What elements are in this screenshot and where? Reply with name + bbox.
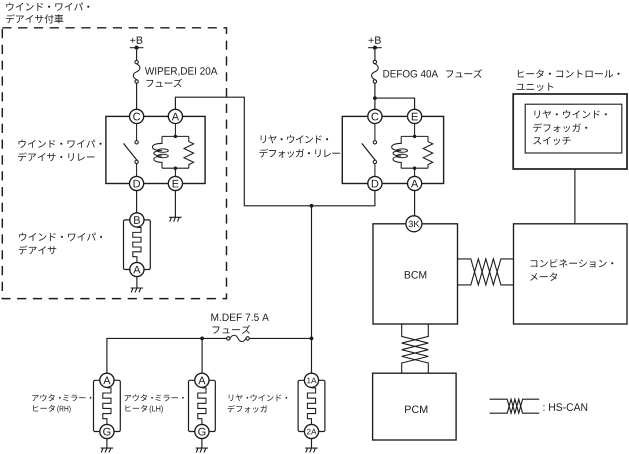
box: コンビネーション・メータ bbox=[514, 224, 628, 324]
node: coil top junction (left relay) bbox=[174, 135, 177, 138]
node: bus junction at LH mirror heater bbox=[200, 337, 204, 341]
wire+ground (rear defogger) bbox=[311, 439, 313, 448]
node: coil bottom junction (right relay) bbox=[413, 167, 416, 170]
wire: pin A up and over to rear defogger relay pin D bbox=[175, 97, 375, 206]
wire: right relay pin A to BCM pin 3K bbox=[414, 191, 416, 216]
legend: HS-CAN twisted pair symbol bbox=[490, 399, 540, 413]
fuse WIPER,DEI 20A bbox=[133, 60, 140, 83]
pin A (right relay) bbox=[408, 176, 422, 190]
label: ウインド・ワイパ・デアイサ・リレー bbox=[18, 140, 102, 162]
label: コンビネーション・メータ bbox=[530, 259, 613, 281]
label: DEFOG 40A フューズ bbox=[383, 69, 482, 78]
relay coil (left) bbox=[152, 124, 188, 177]
box: BCM bbox=[373, 224, 458, 324]
wire: +B to WIPER fuse bbox=[136, 50, 138, 61]
heater element: アウタ・ミラー・ヒータ (RH) (pins A, G) bbox=[94, 373, 121, 438]
label: ヒータ・コントロール・ユニット bbox=[516, 69, 619, 91]
label: WIPER,DEI 20A フューズ bbox=[145, 67, 217, 87]
wire+ground (RH mirror heater) bbox=[106, 439, 108, 448]
fuse M.DEF 7.5 A bbox=[227, 335, 250, 341]
heater element: ウインド・ワイパ・デアイサ (pins B, A) bbox=[124, 213, 151, 277]
node: coil top junction (right relay) bbox=[413, 135, 416, 138]
node: coil bottom junction (left relay) bbox=[174, 167, 177, 170]
twisted pair: BCM to PCM (HS-CAN) bbox=[402, 324, 429, 373]
label: ウインド・ワイパ・デアイサ付車 (header) bbox=[6, 2, 90, 23]
wire: pin D to de-icer element pin B bbox=[136, 191, 138, 213]
label: リヤ・ウインド・デフォッガ bbox=[228, 394, 288, 412]
box: リヤ・ウインド・デフォッガ・スイッチ bbox=[525, 104, 622, 153]
relay box: リヤ・ウインド・デフォッガ・リレー bbox=[342, 116, 443, 183]
box: PCM bbox=[373, 373, 457, 440]
label: アウタ・ミラー・ヒータ (RH) bbox=[32, 394, 91, 413]
power feed +B (left) bbox=[130, 37, 144, 50]
ground (left relay pin E) bbox=[169, 217, 181, 221]
wire: heater control unit to combination meter bbox=[574, 169, 576, 224]
dashed option enclosure box bbox=[2, 28, 226, 299]
node: fuse branch junction bbox=[373, 96, 377, 100]
box: heater control unit bbox=[513, 94, 627, 169]
label: リヤ・ウインド・デフォッガ・スイッチ bbox=[533, 110, 607, 145]
fuse DEFOG 40A bbox=[372, 60, 379, 83]
pin 3K bbox=[406, 216, 422, 232]
label: アウタ・ミラー・ヒータ (LH) bbox=[124, 394, 183, 413]
pin A (left relay) bbox=[168, 109, 182, 123]
wire: fuse to relay pin C bbox=[136, 83, 138, 109]
pin E (left relay) bbox=[168, 176, 182, 190]
relay switch contact (left) bbox=[124, 124, 139, 177]
label: PCM bbox=[405, 405, 427, 413]
wire: relay junction down to bus and rear defogger bbox=[311, 206, 313, 373]
wire+ground (LH mirror heater) bbox=[201, 439, 203, 448]
wire: de-icer pin A to ground bbox=[136, 277, 138, 288]
label: ウインド・ワイパ・デアイサ bbox=[19, 233, 103, 255]
wire: heater bus (left section) to outer mirror heaters bbox=[107, 338, 227, 373]
pin D (left relay) bbox=[130, 176, 144, 190]
label: : HS-CAN bbox=[543, 403, 587, 411]
power feed +B (right) bbox=[368, 37, 382, 50]
wire: pin E to ground bbox=[174, 191, 176, 218]
wire: bus drop to LH mirror heater bbox=[201, 338, 203, 373]
twisted pair: BCM to combination meter (HS-CAN) bbox=[458, 259, 514, 285]
pin D (right relay) bbox=[368, 176, 382, 190]
wire: fuse to pins C and E bbox=[375, 83, 415, 109]
relay resistor (right) bbox=[423, 136, 433, 168]
relay coil (right) bbox=[392, 124, 428, 177]
label: リヤ・ウインド・デフォッガ・リレー bbox=[259, 135, 340, 158]
pin C (left relay) bbox=[130, 109, 144, 123]
node: bus junction at rear defogger bbox=[310, 337, 314, 341]
heater element: リヤ・ウインド・デフォッガ (pins 1A, 2A) bbox=[298, 373, 325, 438]
pin E (right relay) bbox=[408, 109, 422, 123]
heater element: アウタ・ミラー・ヒータ (LH) (pins A, G) bbox=[189, 373, 216, 438]
node: junction on A-D wire bbox=[310, 204, 314, 208]
wire: +B to DEFOG fuse bbox=[374, 50, 376, 60]
wire: heater bus (right section) bbox=[250, 337, 312, 339]
relay resistor (left) bbox=[184, 136, 194, 168]
ground (de-icer) bbox=[131, 288, 143, 292]
label: M.DEF 7.5 A フューズ bbox=[211, 314, 269, 334]
pin C (right relay) bbox=[368, 109, 382, 123]
label: BCM bbox=[405, 271, 426, 279]
relay box: ウインド・ワイパ・デアイサ・リレー bbox=[106, 116, 205, 183]
relay switch contact (right) bbox=[362, 124, 377, 177]
